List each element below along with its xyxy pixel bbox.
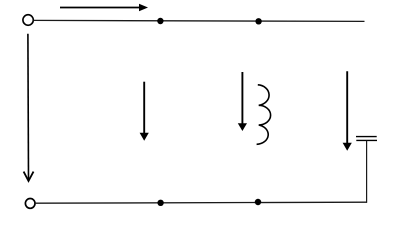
current arrow: left branch (open chevron head, pointing down) <box>24 34 34 181</box>
junction dot: bottom rail, node B' <box>255 199 261 205</box>
wire: capacitor lead down to bottom rail <box>366 141 368 203</box>
junction dot: top rail, node B <box>255 18 261 24</box>
wire: top rail <box>33 20 364 21</box>
wire: bottom rail <box>35 202 367 203</box>
current arrow: top (source current, pointing right) <box>60 4 148 12</box>
terminal (open circle, top-left input port) <box>23 15 33 26</box>
terminal (open circle, bottom-left input port) <box>25 199 35 209</box>
junction dot: bottom rail, node A' <box>157 200 163 206</box>
current arrow: branch 3, capacitor branch (pointing down) <box>343 71 352 150</box>
inductor L (3-turn coil) <box>257 85 271 145</box>
current arrow: branch 2, inductor branch (pointing down) <box>238 72 247 131</box>
junction dot: top rail, node A <box>157 18 163 24</box>
current arrow: branch 1 (pointing down) <box>140 82 149 141</box>
capacitor C (two parallel plates) <box>356 137 377 141</box>
